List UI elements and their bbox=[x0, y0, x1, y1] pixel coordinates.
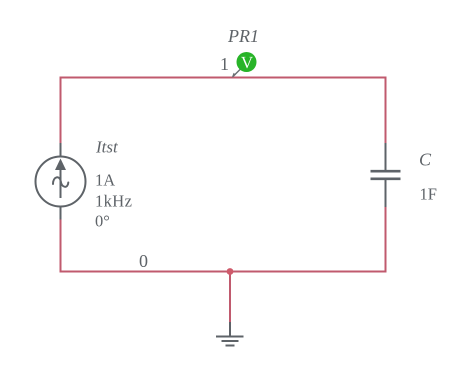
ground bbox=[216, 322, 244, 346]
label C bbox=[419, 150, 432, 170]
junction dot node 0 bbox=[227, 268, 234, 275]
svg-text:Itst: Itst bbox=[95, 138, 119, 157]
label PR1 bbox=[227, 26, 259, 46]
wire bottom net segment bbox=[61, 271, 386, 273]
probe PR1 bbox=[232, 52, 257, 78]
wire left lower segment bbox=[60, 220, 62, 273]
wire ground stub bbox=[229, 272, 231, 323]
capacitor C bbox=[371, 143, 401, 207]
node label 0 bbox=[139, 251, 148, 271]
current source Itst bbox=[36, 143, 86, 220]
value label 0deg bbox=[95, 212, 110, 231]
wire right upper segment bbox=[385, 77, 387, 144]
svg-text:0: 0 bbox=[139, 251, 148, 271]
value label 1kHz bbox=[95, 192, 132, 211]
wire left upper segment bbox=[60, 77, 62, 144]
node label 1 bbox=[220, 54, 229, 74]
svg-text:1F: 1F bbox=[420, 185, 437, 204]
svg-text:PR1: PR1 bbox=[227, 26, 259, 46]
svg-text:1: 1 bbox=[220, 54, 229, 74]
value label 1F bbox=[420, 185, 437, 204]
label Itst bbox=[95, 138, 119, 157]
wire top net segment bbox=[61, 77, 386, 79]
svg-text:1A: 1A bbox=[95, 171, 115, 190]
svg-text:1kHz: 1kHz bbox=[95, 192, 132, 211]
wire right lower segment bbox=[385, 207, 387, 273]
value label 1A bbox=[95, 171, 115, 190]
svg-text:C: C bbox=[419, 150, 432, 170]
svg-text:0°: 0° bbox=[95, 212, 110, 231]
